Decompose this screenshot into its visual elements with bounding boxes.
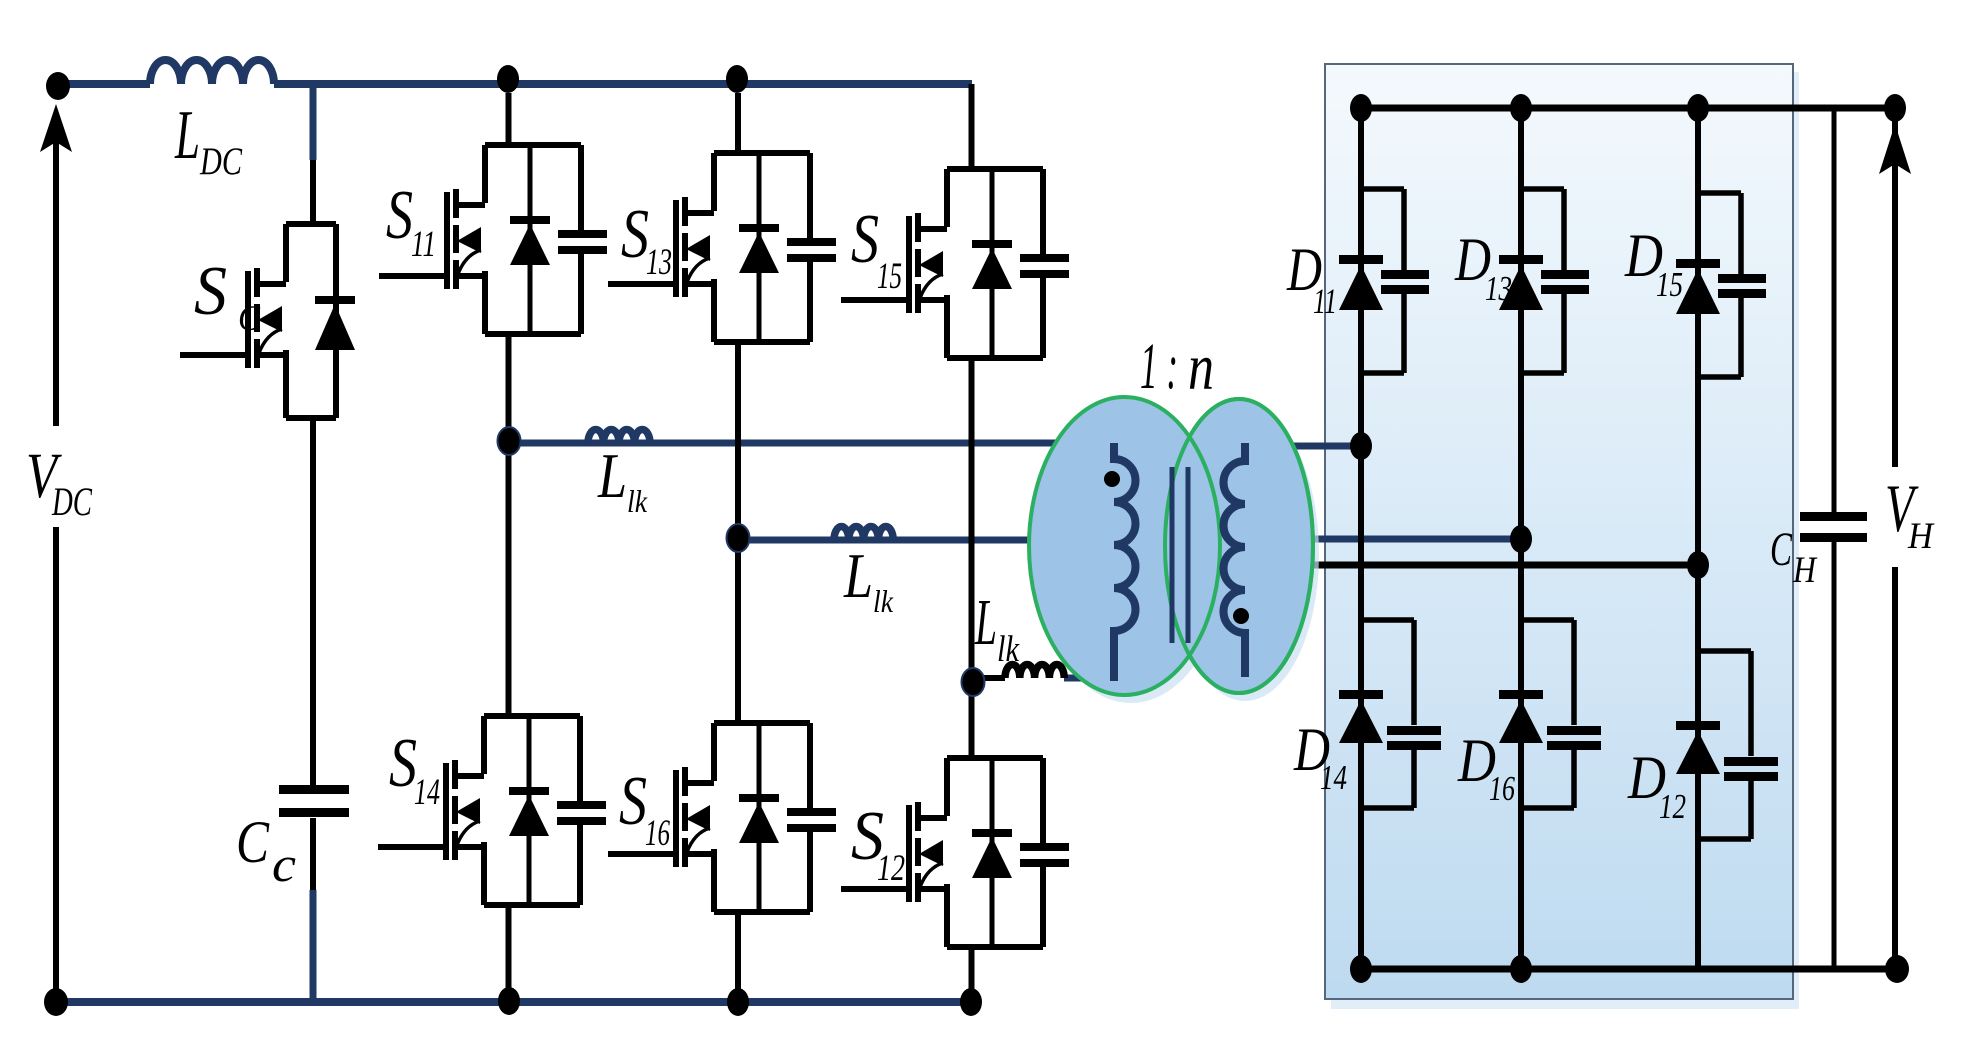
svg-text:S: S bbox=[619, 763, 647, 840]
svg-text:14: 14 bbox=[1320, 758, 1347, 797]
svg-text:14: 14 bbox=[414, 772, 440, 813]
svg-text:L: L bbox=[174, 97, 200, 174]
svg-text:H: H bbox=[1907, 516, 1935, 557]
svg-text:lk: lk bbox=[997, 629, 1019, 670]
svg-text:S: S bbox=[389, 725, 417, 802]
svg-text:11: 11 bbox=[411, 224, 436, 265]
svg-text:12: 12 bbox=[877, 848, 905, 889]
svg-text:lk: lk bbox=[873, 583, 894, 619]
svg-text:16: 16 bbox=[645, 813, 670, 854]
svg-text:S: S bbox=[621, 196, 649, 273]
svg-text:n: n bbox=[1188, 331, 1214, 404]
svg-text:15: 15 bbox=[877, 256, 902, 297]
svg-text:S: S bbox=[386, 177, 413, 254]
svg-text:DC: DC bbox=[199, 140, 243, 183]
svg-text:C: C bbox=[238, 298, 261, 338]
svg-text:L: L bbox=[974, 586, 997, 659]
svg-text:L: L bbox=[597, 440, 627, 511]
svg-text:H: H bbox=[1792, 550, 1818, 591]
svg-text:c: c bbox=[272, 836, 296, 892]
svg-text:C: C bbox=[236, 809, 270, 875]
svg-text:S: S bbox=[194, 253, 227, 330]
svg-text:13: 13 bbox=[646, 242, 672, 283]
svg-text:DC: DC bbox=[51, 479, 93, 524]
svg-text:S: S bbox=[851, 201, 879, 278]
svg-text:16: 16 bbox=[1489, 769, 1515, 808]
svg-text:L: L bbox=[843, 540, 873, 611]
svg-text:11: 11 bbox=[1313, 281, 1337, 321]
svg-text:1 :: 1 : bbox=[1140, 330, 1178, 403]
svg-text:13: 13 bbox=[1485, 269, 1512, 308]
svg-text:lk: lk bbox=[627, 483, 648, 519]
svg-text:12: 12 bbox=[1659, 787, 1686, 826]
svg-text:15: 15 bbox=[1656, 265, 1683, 304]
svg-text:C: C bbox=[1770, 523, 1793, 576]
